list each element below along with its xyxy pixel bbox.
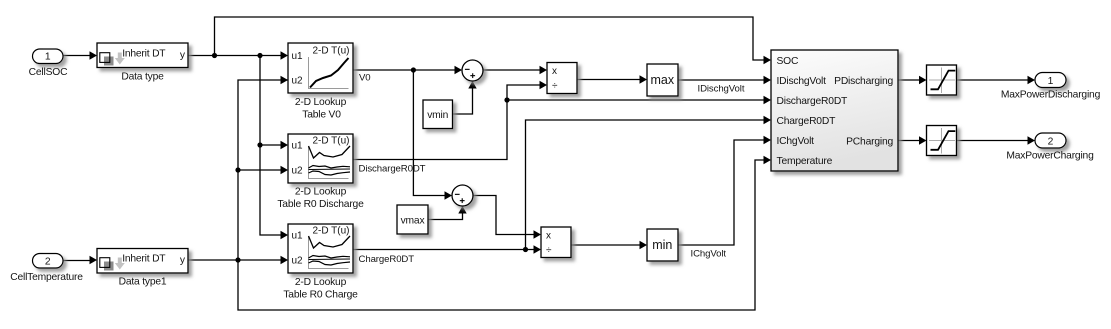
arrowhead into Data type1 — [90, 256, 98, 264]
svg-text:PCharging: PCharging — [846, 137, 893, 148]
wire sum2 output to divide2 x input — [473, 196, 534, 235]
svg-text:Inherit DT: Inherit DT — [122, 48, 166, 59]
arrowhead into sum2 plus (up) — [458, 206, 466, 214]
arrowhead into Table R0 Charge u1 — [281, 231, 289, 239]
wire saturation2 to output port 2 — [956, 140, 1028, 142]
wire saturation1 to output port 1 — [956, 79, 1028, 81]
wire u1 feed to Table R0 Discharge — [260, 144, 281, 146]
wire branch down feeding u1 inputs — [260, 56, 281, 236]
wire subsystem PDischarging to saturation1 — [898, 79, 919, 81]
block divide1 (x over divisor) — [547, 63, 577, 94]
svg-text:Table V0: Table V0 — [302, 110, 341, 121]
arrowhead into Data type — [90, 51, 98, 59]
block Data type1 (Inherit DT) — [97, 249, 188, 274]
arrowhead into divide1 divisor — [540, 81, 548, 89]
junction on u2 bus at Data type1 wire — [235, 257, 240, 262]
sum2 circle (minus plus) — [452, 185, 473, 206]
svg-text:MaxPowerCharging: MaxPowerCharging — [1006, 151, 1094, 162]
sum1 circle (minus plus) — [462, 60, 483, 81]
svg-text:Table R0 Discharge: Table R0 Discharge — [277, 199, 364, 210]
arrowhead into Table R0 Discharge u2 — [281, 166, 289, 174]
svg-text:u2: u2 — [292, 76, 304, 87]
wire CellSOC port to Data type — [63, 55, 90, 57]
arrowhead into Table R0 Charge u2 — [281, 256, 289, 264]
wire branch up from node A to SOC input — [215, 17, 765, 60]
svg-text:Inherit DT: Inherit DT — [122, 253, 166, 264]
wire vmin to sum1 plus input — [452, 88, 473, 114]
svg-text:Data type: Data type — [121, 71, 164, 82]
arrowhead into subsystem IChgVolt — [764, 136, 772, 144]
arrowhead into max — [640, 75, 648, 83]
svg-text:DischargeR0DT: DischargeR0DT — [359, 164, 426, 175]
svg-text:IDischgVolt: IDischgVolt — [777, 76, 827, 87]
svg-text:Table R0 Charge: Table R0 Charge — [283, 290, 358, 301]
arrowhead into Table V0 u1 — [281, 51, 289, 59]
wire min output to subsystem IChgVolt — [678, 140, 764, 245]
arrowhead into divide2 divisor — [534, 245, 542, 253]
junction on u1 bus at R0 Discharge — [257, 142, 262, 147]
svg-text:vmax: vmax — [401, 215, 426, 226]
svg-text:1: 1 — [45, 52, 51, 63]
wire DischargeR0DT branch to subsystem — [507, 99, 764, 101]
svg-text:x: x — [546, 230, 551, 241]
arrowhead into output port 2 — [1028, 136, 1036, 144]
wire subsystem PCharging to saturation2 — [898, 140, 919, 142]
svg-text:2: 2 — [1048, 136, 1054, 147]
arrowhead into subsystem DischargeR0DT — [764, 96, 772, 104]
svg-text:u1: u1 — [292, 231, 304, 242]
wire divide1 output to max — [577, 79, 640, 81]
svg-text:2: 2 — [45, 257, 51, 268]
junction node A on y wire — [212, 53, 217, 58]
block saturation1 — [927, 65, 957, 95]
block vmax constant — [397, 205, 428, 234]
svg-text:Temperature: Temperature — [777, 156, 833, 167]
arrowhead into Table V0 u2 — [281, 76, 289, 84]
wire Data type1 y output to Table R0 Charge u2 — [189, 259, 282, 261]
svg-text:Data type1: Data type1 — [119, 276, 167, 287]
wire u2 feed to Table R0 Discharge — [238, 169, 281, 171]
svg-text:u2: u2 — [292, 256, 304, 267]
wire CellTemperature port to Data type1 — [63, 260, 90, 262]
svg-text:V0: V0 — [359, 73, 371, 84]
junction on ChargeR0DT branch — [523, 247, 528, 252]
input port 2 CellTemperature — [33, 254, 64, 269]
block 2-D Lookup Table V0 — [288, 43, 353, 93]
arrowhead into subsystem SOC — [764, 56, 772, 64]
wire max output to subsystem IDischgVolt — [678, 79, 764, 81]
wire DischargeR0DT output to divide1 divisor input — [353, 85, 540, 160]
block divide2 (x over divisor) — [541, 227, 571, 258]
output port 1 MaxPowerDischarging — [1035, 73, 1066, 88]
wire V0 output to sum1 — [353, 69, 455, 71]
svg-text:2-D Lookup: 2-D Lookup — [295, 277, 347, 288]
block min — [647, 229, 678, 261]
wire branch from node V0 down to sum2 — [413, 70, 444, 196]
arrowhead into saturation1 — [919, 76, 927, 84]
input port 1 CellSOC — [33, 49, 64, 64]
svg-text:u2: u2 — [292, 166, 304, 177]
junction on u2 bus at R0 Discharge — [235, 167, 240, 172]
svg-text:ChargeR0DT: ChargeR0DT — [359, 254, 415, 265]
svg-text:2-D T(u): 2-D T(u) — [312, 226, 349, 237]
wire ChargeR0DT output to divide2 divisor input — [353, 249, 534, 251]
svg-text:u1: u1 — [292, 141, 304, 152]
svg-text:max: max — [650, 73, 674, 87]
svg-text:IChgVolt: IChgVolt — [777, 136, 815, 147]
block vmin constant — [423, 100, 453, 129]
wire vmax to sum2 plus input — [428, 213, 463, 220]
svg-text:vmin: vmin — [427, 110, 448, 121]
svg-text:CellSOC: CellSOC — [29, 67, 68, 78]
junction on DischargeR0DT branch — [504, 97, 509, 102]
svg-text:min: min — [652, 238, 672, 252]
svg-text:IDischgVolt: IDischgVolt — [698, 84, 745, 95]
wire ChargeR0DT branch up to subsystem — [526, 120, 765, 250]
arrowhead into subsystem ChargeR0DT — [764, 116, 772, 124]
wire sum1 output to divide1 x input — [483, 69, 540, 71]
svg-text:÷: ÷ — [552, 80, 558, 91]
subsystem U1 power calc — [771, 50, 898, 171]
arrowhead into sum1 minus — [455, 66, 463, 74]
block 2-D Lookup Table R0 Discharge — [288, 134, 353, 183]
svg-text:2-D T(u): 2-D T(u) — [312, 136, 349, 147]
svg-text:SOC: SOC — [777, 56, 799, 67]
svg-text:2-D Lookup: 2-D Lookup — [295, 97, 347, 108]
junction node V0 — [411, 67, 416, 72]
arrowhead into min — [640, 241, 648, 249]
output port 2 MaxPowerCharging — [1035, 133, 1066, 148]
svg-text:DischargeR0DT: DischargeR0DT — [777, 96, 849, 107]
arrowhead into divide2 x — [534, 230, 542, 238]
arrowhead into sum2 minus — [445, 191, 453, 199]
block Data type (Inherit DT) U-convert — [97, 43, 188, 68]
wire vertical bus feeding u2 inputs and Temperature — [238, 80, 764, 310]
svg-text:ChargeR0DT: ChargeR0DT — [777, 116, 837, 127]
arrowhead into sum1 plus (up) — [468, 81, 476, 89]
svg-text:÷: ÷ — [546, 245, 552, 256]
svg-text:PDischarging: PDischarging — [834, 76, 893, 87]
svg-text:MaxPowerDischarging: MaxPowerDischarging — [1001, 90, 1101, 101]
svg-text:2-D Lookup: 2-D Lookup — [295, 187, 347, 198]
svg-text:IChgVolt: IChgVolt — [691, 249, 727, 260]
block saturation2 — [927, 126, 957, 156]
svg-text:2-D T(u): 2-D T(u) — [312, 46, 349, 57]
wire divide2 output to min — [571, 244, 640, 246]
block 2-D Lookup Table R0 Charge — [288, 224, 353, 273]
wire Data type y output to Table V0 u1 — [189, 55, 282, 57]
arrowhead into subsystem IDischgVolt — [764, 76, 772, 84]
arrowhead into subsystem Temperature — [764, 156, 772, 164]
block max — [647, 64, 678, 96]
svg-text:1: 1 — [1048, 76, 1054, 87]
svg-text:x: x — [552, 66, 557, 77]
arrowhead into Table R0 Discharge u1 — [281, 141, 289, 149]
svg-text:u1: u1 — [292, 51, 304, 62]
arrowhead into output port 1 — [1028, 76, 1036, 84]
svg-text:CellTemperature: CellTemperature — [10, 272, 83, 283]
arrowhead into saturation2 — [919, 136, 927, 144]
arrowhead into divide1 x — [540, 66, 548, 74]
junction node B on y wire — [257, 53, 262, 58]
